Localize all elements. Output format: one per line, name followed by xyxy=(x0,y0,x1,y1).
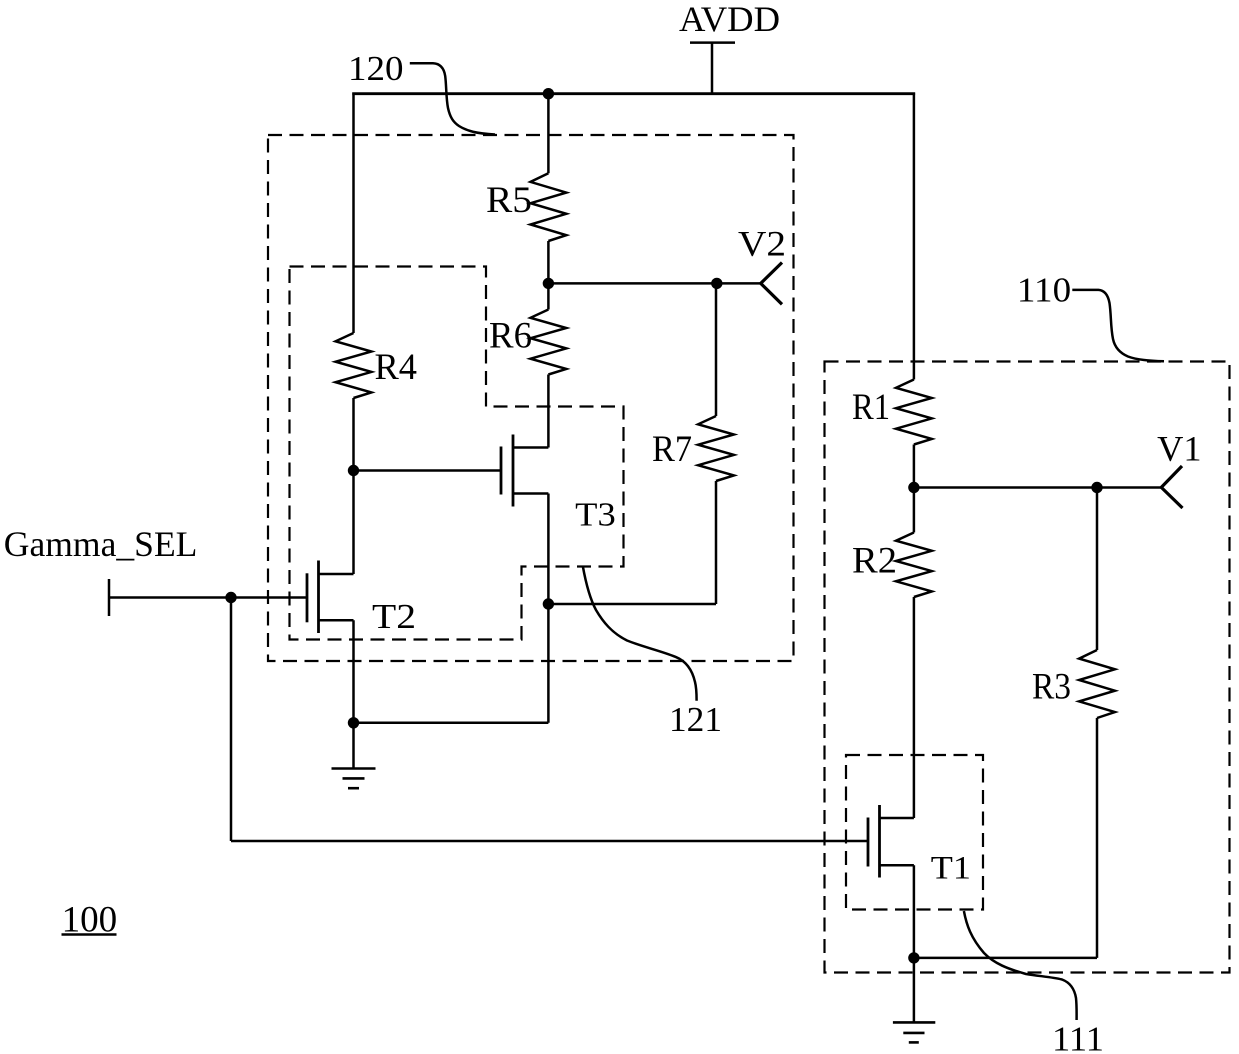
svg-text:120: 120 xyxy=(348,49,404,88)
svg-text:111: 111 xyxy=(1052,1020,1104,1054)
svg-text:R5: R5 xyxy=(486,180,532,221)
svg-text:R3: R3 xyxy=(1032,667,1071,708)
svg-text:Gamma_SEL: Gamma_SEL xyxy=(4,524,198,564)
svg-text:R2: R2 xyxy=(852,541,897,582)
svg-text:100: 100 xyxy=(62,899,118,940)
svg-text:110: 110 xyxy=(1017,271,1071,310)
svg-text:121: 121 xyxy=(669,700,722,739)
svg-text:R7: R7 xyxy=(652,429,692,470)
svg-text:T2: T2 xyxy=(372,597,416,636)
svg-text:V1: V1 xyxy=(1157,428,1201,468)
svg-text:V2: V2 xyxy=(738,224,786,264)
svg-text:T1: T1 xyxy=(931,851,971,887)
svg-text:AVDD: AVDD xyxy=(679,0,780,39)
svg-text:T3: T3 xyxy=(575,497,616,534)
svg-text:R6: R6 xyxy=(489,316,532,357)
svg-text:R1: R1 xyxy=(852,387,890,428)
svg-text:R4: R4 xyxy=(375,347,418,388)
